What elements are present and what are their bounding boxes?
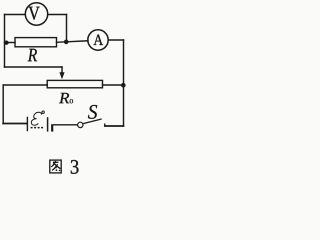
- caption number 3: [71, 160, 79, 174]
- wire rheostat row right: [103, 84, 124, 86]
- node junction dot left of R: [4, 41, 8, 45]
- wire R to node to ammeter: [57, 41, 89, 43]
- switch hinge circle: [78, 122, 83, 127]
- switch blade (open): [83, 119, 102, 124]
- wire battery to switch hinge: [54, 124, 78, 126]
- node junction dot right rail rheostat tap: [121, 83, 126, 88]
- resistor R value label: [28, 49, 37, 61]
- wire battery row left: [3, 123, 26, 125]
- wire rheostat row left: [3, 84, 47, 86]
- switch label S: [88, 105, 97, 119]
- voltmeter U-V circle: [25, 3, 47, 25]
- ammeter label A: [94, 35, 104, 45]
- resistor R body: [15, 38, 57, 47]
- battery cell plate 1: [26, 117, 28, 131]
- node junction dot right of R: [64, 40, 69, 45]
- rheostat wiper arrowhead: [59, 72, 64, 79]
- wire ammeter to right corner: [108, 39, 123, 41]
- battery cell plate 3 short thick: [51, 124, 53, 131]
- voltmeter label V: [28, 7, 39, 20]
- battery EMF script-E label: [31, 111, 44, 125]
- wire right rail: [123, 40, 125, 126]
- wire left rail lower segment: [2, 85, 4, 124]
- rheostat label R0: [59, 93, 69, 103]
- battery cell plate 2 long: [47, 117, 49, 131]
- wire wiper vertical to arrow: [61, 67, 63, 73]
- caption hanzi TU (figure) drawn: [50, 160, 61, 173]
- battery omitted-cells dashes: [31, 127, 43, 129]
- wire voltmeter to top-right corner: [48, 14, 67, 16]
- rheostat R0 body: [47, 80, 102, 87]
- ammeter U-A circle: [88, 30, 108, 50]
- wire vertical from top-right corner to node: [66, 15, 68, 42]
- wire bottom-right corner to switch contact: [105, 125, 124, 127]
- wire left rail upper segment: [4, 15, 6, 68]
- wire R row left: [5, 42, 16, 44]
- switch fixed contact tick: [104, 123, 106, 126]
- wire wiper horizontal: [5, 66, 63, 68]
- wire top-left to voltmeter: [5, 14, 26, 16]
